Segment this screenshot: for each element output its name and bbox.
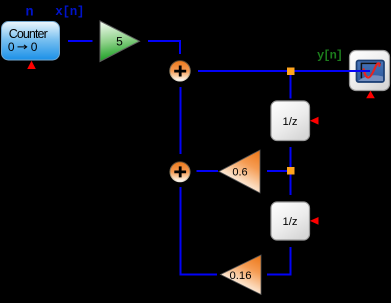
delay block 1/z #1 <box>271 101 310 141</box>
svg-text:0: 0 <box>8 40 15 54</box>
wire from junction J1 to scope input (drawn over block) <box>295 70 371 72</box>
wire from delay 1/z #1 output down to junction J2 <box>290 147 292 167</box>
delay block 1/z #2 <box>271 202 310 240</box>
wire from Counter output to gain input <box>68 40 93 42</box>
adder A2 <box>170 162 190 182</box>
svg-text:1/z: 1/z <box>282 216 297 228</box>
junction J2 (orange square) <box>287 167 295 175</box>
wire from junction J2 left to gain 0.6 input <box>267 170 287 172</box>
svg-text:n: n <box>26 5 34 20</box>
wire from junction J2 down to delay block 1/z #2 <box>290 175 292 196</box>
event input port (red triangle) right of 1/z #2 <box>310 217 319 225</box>
svg-text:0.16: 0.16 <box>230 270 252 282</box>
wire from adder A2 output up to adder A1 bottom input <box>180 87 182 154</box>
counter block U1 <box>2 22 60 61</box>
wire from gain output to adder A1 top input <box>148 41 180 54</box>
event input port (red triangle) right of 1/z #1 <box>310 117 319 125</box>
wire from junction J1 down to delay block 1/z #1 <box>290 75 292 99</box>
svg-text:y[n]: y[n] <box>317 48 342 62</box>
svg-text:Counter: Counter <box>9 27 48 41</box>
svg-text:0.6: 0.6 <box>232 166 247 178</box>
svg-text:x[n]: x[n] <box>55 5 84 19</box>
event input port (red triangle) under counter <box>27 61 36 69</box>
gain block K1 value 5 (green triangle) <box>100 21 140 62</box>
adder A1 <box>170 61 190 81</box>
scope block SC1 <box>350 51 390 91</box>
svg-text:1/z: 1/z <box>282 116 297 128</box>
wire from delay 1/z #2 output down and left to gain 0.16 input <box>267 247 291 275</box>
wire from adder A2 bottom down and right to gain 0.16 output <box>181 187 218 275</box>
gain block K2 value 0.6 (orange triangle) <box>219 150 260 193</box>
junction J1 (orange square) <box>287 68 295 76</box>
svg-text:5: 5 <box>116 35 123 49</box>
svg-text:0: 0 <box>31 40 38 54</box>
event input port (red triangle) under scope <box>366 91 375 98</box>
wire from gain 0.6 output to adder A2 right input <box>197 170 219 172</box>
gain block K3 value 0.16 (orange triangle) <box>221 255 262 295</box>
wire from adder A1 output to junction J1 <box>198 70 287 72</box>
